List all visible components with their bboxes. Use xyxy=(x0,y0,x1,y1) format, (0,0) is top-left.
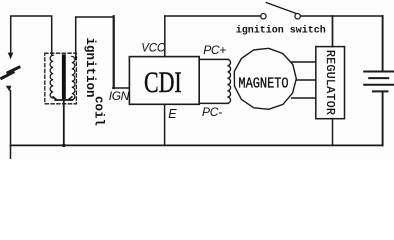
wire ignition coil bottom lead xyxy=(63,100,65,145)
wire magneto to regulator bottom xyxy=(292,97,316,99)
battery BT1 xyxy=(364,72,393,92)
regulator box xyxy=(316,47,345,119)
ignition coil core xyxy=(62,54,66,99)
svg-text:IGN: IGN xyxy=(109,89,130,103)
label ignition coil xyxy=(83,38,106,127)
ignition coil primary winding xyxy=(50,55,53,98)
wire bottom rail xyxy=(11,144,383,146)
wire IGN into CDI xyxy=(113,87,130,89)
ignition coil secondary winding xyxy=(72,56,75,99)
svg-text:ignition: ignition xyxy=(83,38,97,98)
magneto pickup coil winding xyxy=(227,59,230,103)
wire regulator bottom lead xyxy=(332,119,334,146)
CDI unit box xyxy=(129,57,199,105)
ignition switch xyxy=(261,3,301,19)
wire top rail right segment xyxy=(300,15,382,17)
wire left rail bottom xyxy=(10,91,12,160)
ignition coil bottom junction bar xyxy=(53,97,72,100)
wire IGN drop xyxy=(113,16,115,88)
svg-text:PC+: PC+ xyxy=(203,43,226,57)
svg-text:CDI: CDI xyxy=(144,66,182,99)
svg-text:VCC: VCC xyxy=(141,43,166,55)
spark lightning bolt xyxy=(0,67,20,79)
spark plug gap arrows xyxy=(6,53,14,92)
wire top rail left segment xyxy=(165,15,261,17)
wire E ground xyxy=(164,104,166,145)
ignition coil dashed box xyxy=(45,53,77,104)
wire PC+ xyxy=(199,58,228,60)
wire right rail / battery top lead xyxy=(382,16,384,71)
wire magneto to regulator top xyxy=(292,61,316,63)
junction coil-ground xyxy=(62,144,65,147)
svg-text:E: E xyxy=(168,107,177,121)
wire VCC xyxy=(164,16,166,57)
wire ignition coil secondary top loop xyxy=(76,17,114,59)
svg-text:MAGNETO: MAGNETO xyxy=(238,76,288,92)
wire magneto to regulator middle xyxy=(296,79,316,81)
wire battery bottom lead xyxy=(382,91,384,145)
wire left rail top xyxy=(11,16,52,55)
svg-text:ignition switch: ignition switch xyxy=(236,24,326,36)
svg-text:REGULATOR: REGULATOR xyxy=(323,50,336,115)
wire PC- xyxy=(199,102,228,104)
svg-text:coil: coil xyxy=(92,96,106,126)
svg-text:PC-: PC- xyxy=(202,105,222,119)
magneto circle xyxy=(234,48,296,109)
wire regulator top lead xyxy=(332,16,334,47)
